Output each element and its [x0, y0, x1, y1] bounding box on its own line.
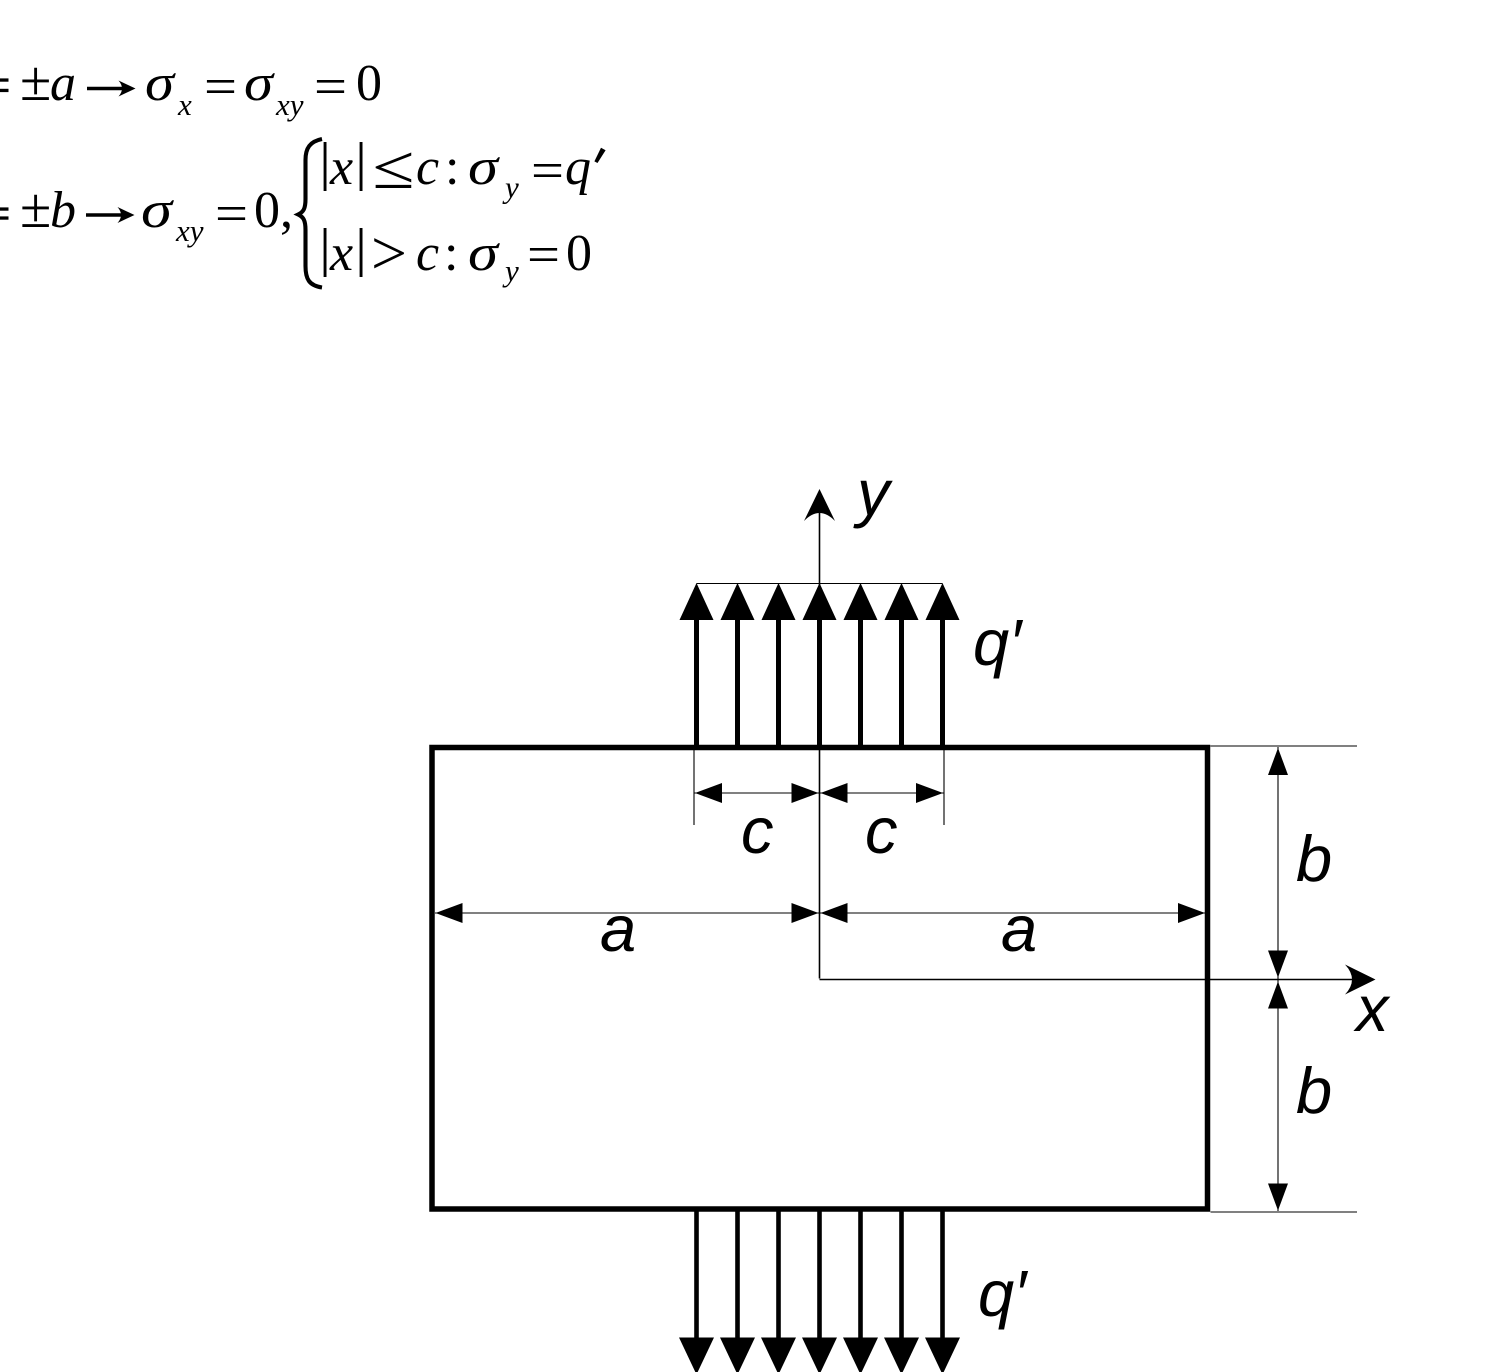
svg-text:σ: σ: [141, 182, 175, 239]
svg-text:c: c: [865, 794, 898, 867]
svg-text:q: q: [565, 139, 591, 196]
c dim arrowhead right outer: [916, 783, 943, 803]
svg-text::: :: [444, 225, 458, 282]
svg-text:σ: σ: [468, 139, 501, 196]
svg-text:c: c: [741, 794, 774, 867]
c dimension extension line right: [943, 750, 945, 825]
svg-text:x: x: [1353, 972, 1391, 1045]
svg-text:x: x: [177, 87, 192, 122]
y-axis line: [819, 512, 821, 979]
a dim arrowhead right inner: [821, 903, 848, 923]
svg-text:±: ±: [20, 177, 51, 240]
svg-text:=: =: [531, 143, 564, 200]
svg-text:q′: q′: [973, 606, 1024, 679]
svg-text:b: b: [1296, 822, 1332, 895]
svg-text:a: a: [1001, 892, 1037, 965]
svg-text:xy: xy: [175, 213, 204, 248]
svg-text:±: ±: [20, 50, 51, 113]
svg-text:y: y: [853, 456, 893, 529]
x-axis arrowhead: [1345, 965, 1376, 995]
bottom load arrow 6: [884, 1211, 919, 1372]
svg-text:b: b: [50, 182, 76, 239]
bottom load arrow 7: [925, 1211, 960, 1372]
svg-text:>: >: [371, 220, 407, 288]
svg-text:0: 0: [566, 225, 592, 282]
svg-text:x: x: [329, 225, 353, 282]
svg-text:x: x: [329, 139, 353, 196]
top load arrow 2: [721, 583, 755, 748]
top load arrow 7: [926, 583, 960, 748]
svg-text:=: =: [527, 227, 560, 284]
svg-text:y: y: [502, 170, 519, 205]
equation line 1 partial equals sign (clipped at left edge): [0, 78, 9, 92]
bottom load arrow 3: [761, 1211, 796, 1372]
svg-text::: :: [445, 139, 459, 196]
c dim arrowhead right inner: [821, 783, 848, 803]
b extension line top: [1211, 745, 1358, 747]
a dim arrowhead right outer: [1178, 903, 1205, 923]
equation line 2: = ±b → σxy = 0,: [20, 177, 293, 248]
svg-text:σ: σ: [468, 225, 501, 282]
svg-text:σ: σ: [244, 55, 276, 112]
b dim arrowhead below x-axis: [1268, 982, 1288, 1009]
svg-text:xy: xy: [275, 87, 304, 122]
svg-text:b: b: [1296, 1054, 1332, 1127]
c dimension extension line left: [693, 750, 695, 825]
svg-text:0: 0: [356, 55, 382, 112]
y-axis arrowhead: [804, 489, 835, 521]
svg-text:y: y: [502, 253, 519, 288]
equation brace { of the case conditions: [298, 139, 322, 288]
b dimension line: [1277, 747, 1279, 1211]
bottom load arrow 5: [843, 1211, 878, 1372]
top load arrow 5: [844, 583, 878, 748]
b extension line bottom: [1211, 1211, 1358, 1213]
svg-text:c: c: [416, 225, 439, 282]
c dim arrowhead left outer: [695, 783, 722, 803]
equation line 1: = ±a → σx = σxy = 0: [20, 50, 382, 122]
c dim arrowhead left inner: [792, 783, 819, 803]
svg-text:q′: q′: [978, 1257, 1029, 1330]
svg-text:0,: 0,: [254, 182, 293, 239]
equation case row 2: |x| > c : σy = 0: [324, 220, 592, 288]
svg-text:=: =: [215, 186, 248, 243]
bottom load arrow 2: [720, 1211, 755, 1372]
a dim arrowhead left inner: [792, 903, 819, 923]
svg-text:a: a: [600, 892, 636, 965]
b dim arrowhead above x-axis: [1268, 951, 1288, 978]
top load arrow 1: [680, 583, 714, 748]
svg-text:=: =: [204, 59, 237, 116]
svg-text:a: a: [50, 55, 76, 112]
svg-text:=: =: [314, 59, 347, 116]
top load tip line: [697, 583, 943, 585]
top load arrow 4: [803, 583, 837, 748]
equation case row 1: |x| &le; c : σy = q': [324, 134, 606, 205]
top load arrow 6: [885, 583, 919, 748]
plate rectangle: [432, 748, 1208, 1210]
bottom load arrow 4: [802, 1211, 837, 1372]
svg-text:≤: ≤: [373, 134, 415, 202]
a dim arrowhead left outer: [436, 903, 463, 923]
a dimension line: [435, 912, 1205, 914]
equation line 2 partial equals sign (clipped at left edge): [0, 207, 9, 219]
c dimension line: [694, 792, 944, 794]
bottom load arrow 1: [679, 1211, 714, 1372]
svg-text:c: c: [416, 139, 439, 196]
b dim arrowhead bottom: [1268, 1184, 1288, 1211]
top load arrow 3: [762, 583, 796, 748]
x-axis line: [820, 979, 1354, 981]
svg-text:σ: σ: [145, 55, 177, 112]
b dim arrowhead top: [1268, 748, 1288, 775]
